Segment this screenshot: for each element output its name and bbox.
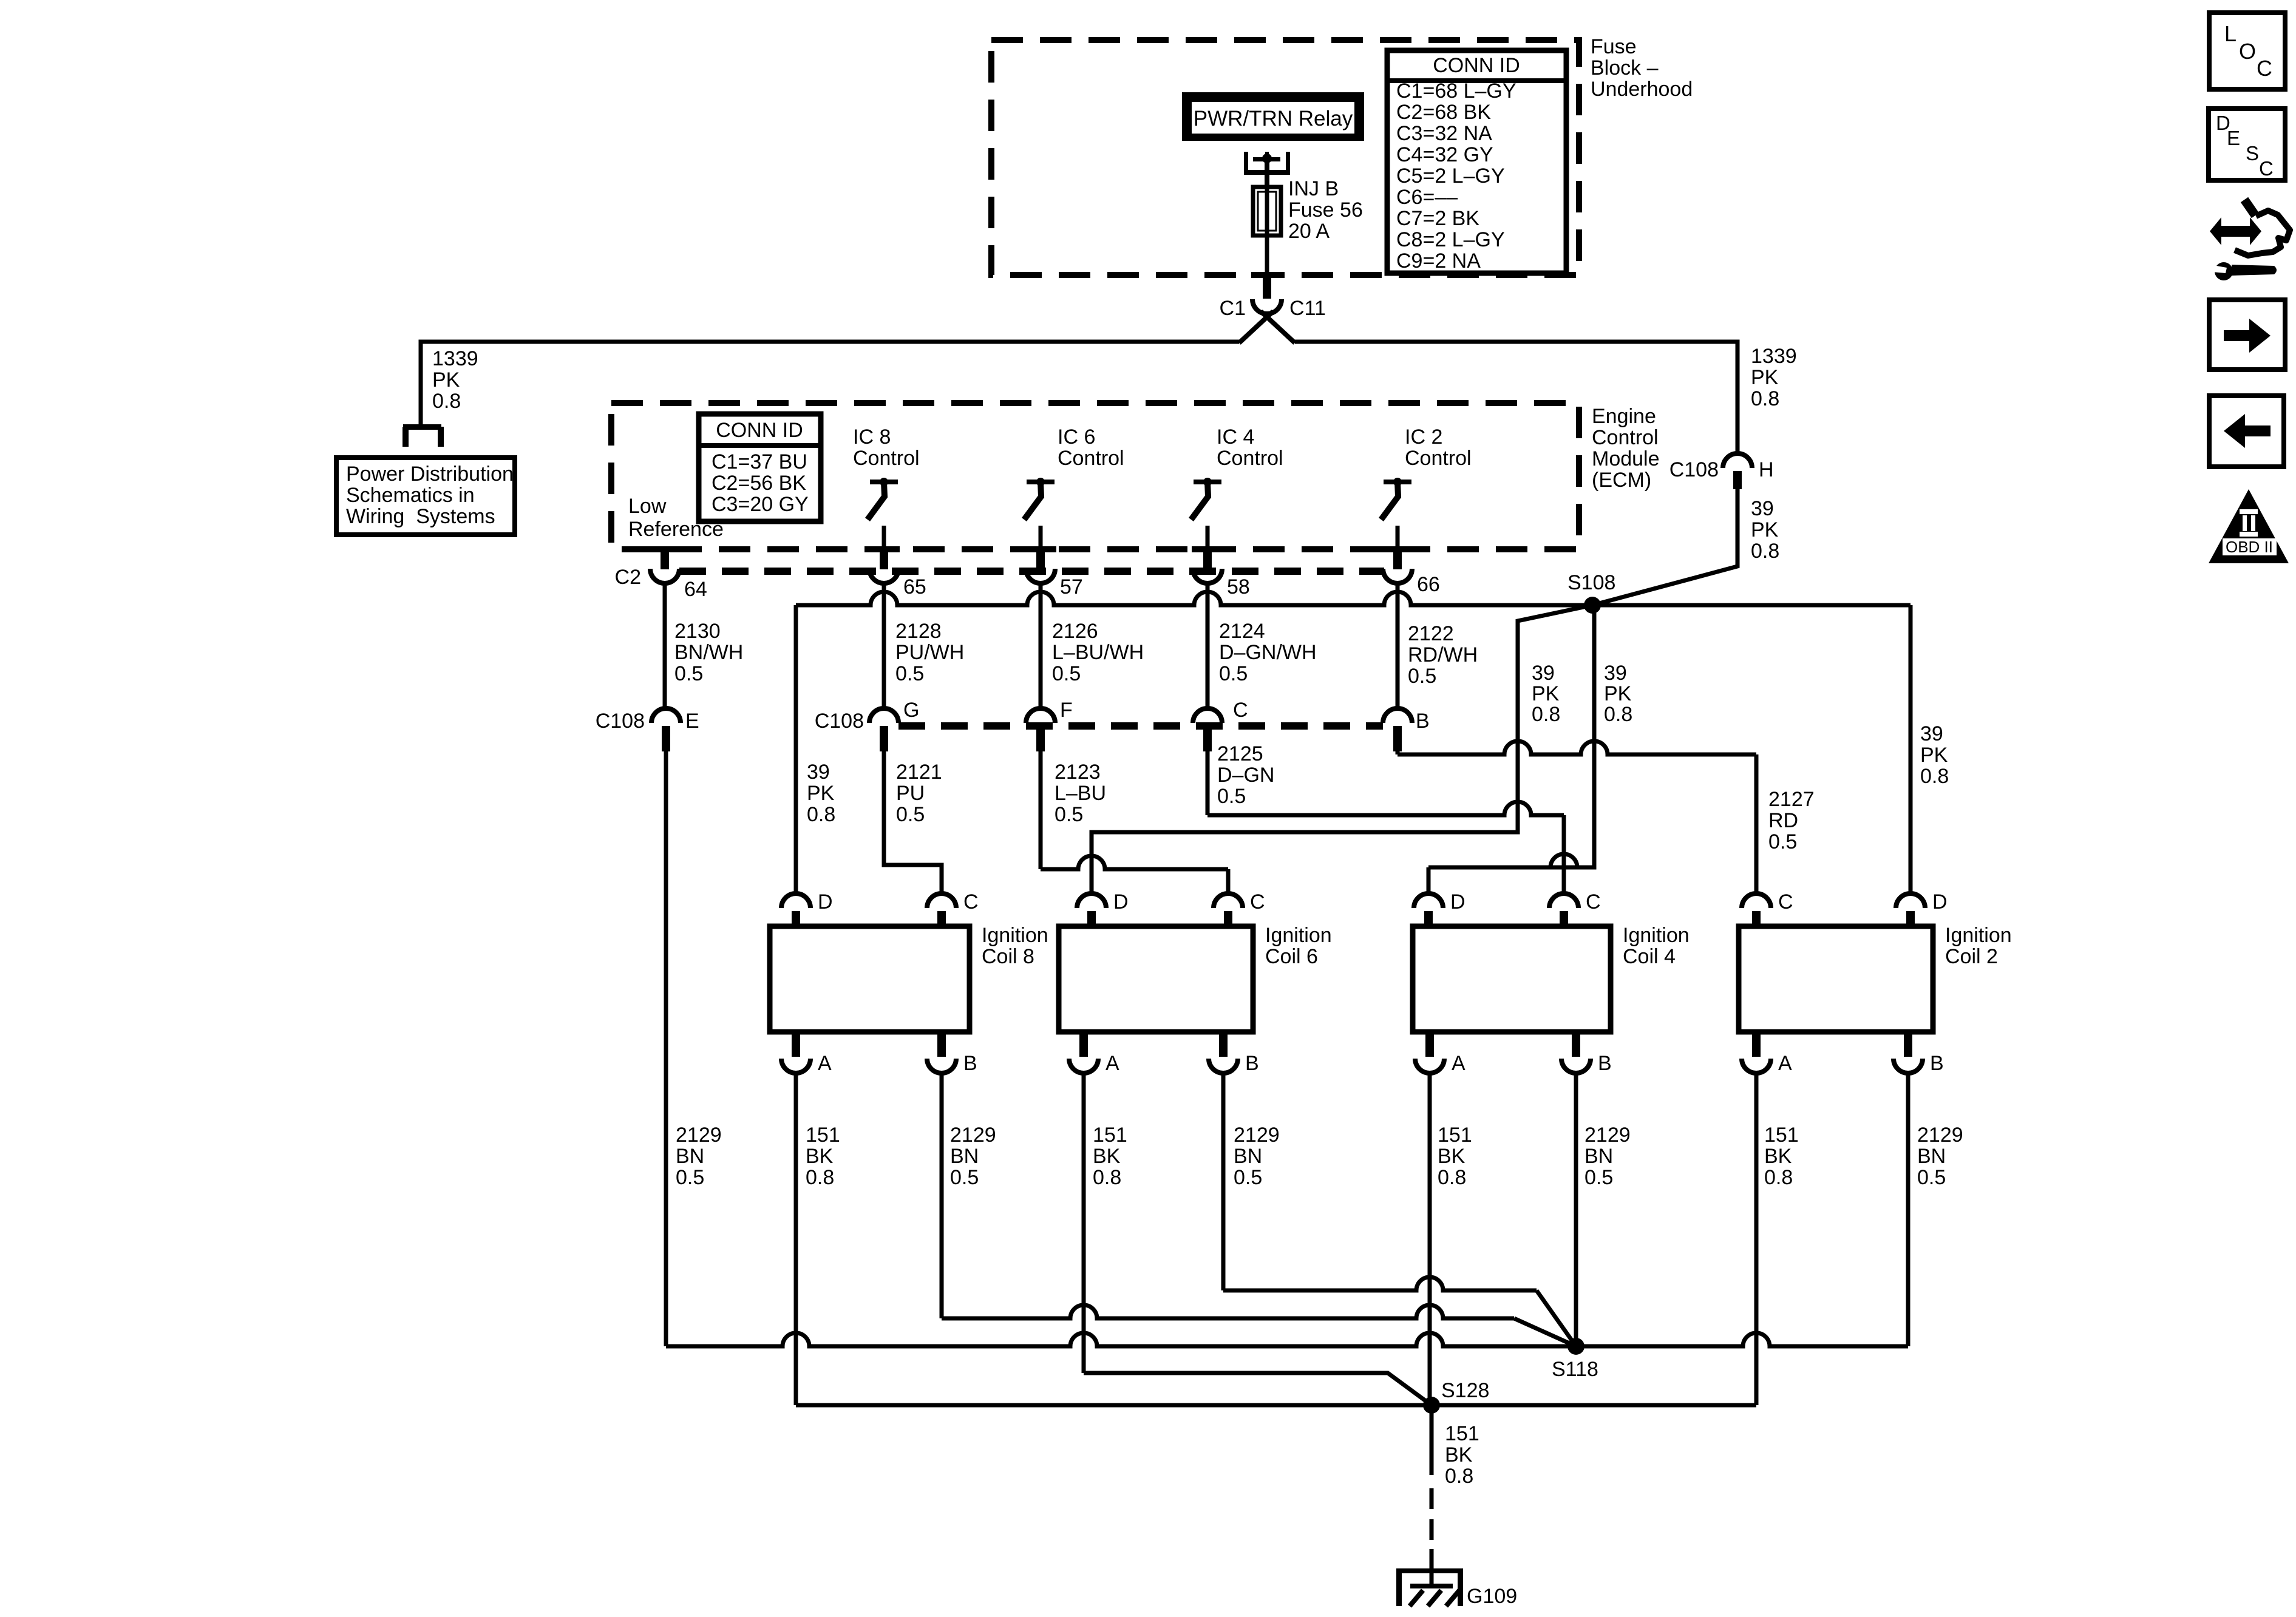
svg-text:Low: Low — [628, 495, 667, 518]
svg-text:Coil 4: Coil 4 — [1623, 945, 1676, 968]
coil 4 pin B — [1572, 1032, 1580, 1057]
svg-text:2127: 2127 — [1768, 788, 1815, 811]
wire 2128 PU/WH pin65 to C108-G — [882, 583, 886, 709]
CONN ID table (fuse block) — [1387, 50, 1566, 273]
svg-text:IC 4: IC 4 — [1217, 425, 1254, 449]
wire 2129 BN coil4-B down to S118 — [1574, 1072, 1578, 1346]
ignition coil 8 box — [770, 926, 970, 1032]
svg-text:65: 65 — [903, 575, 926, 598]
svg-text:1339: 1339 — [432, 347, 478, 370]
wire S108 branch to coil4 D — [1442, 605, 1594, 867]
svg-text:S: S — [2246, 142, 2259, 164]
wire 2121 PU C108-G to coil8 C — [884, 751, 942, 893]
svg-text:D: D — [818, 890, 833, 914]
svg-text:BN: BN — [950, 1145, 979, 1168]
coil 6 pin D — [1077, 893, 1106, 908]
svg-text:F: F — [1060, 699, 1073, 722]
svg-text:2122: 2122 — [1408, 622, 1454, 645]
svg-text:151: 151 — [806, 1124, 840, 1147]
coil 8 pin C — [927, 893, 956, 908]
svg-text:D–GN/WH: D–GN/WH — [1219, 641, 1317, 664]
connector C2 pin 57 — [1025, 546, 1056, 552]
svg-text:58: 58 — [1227, 575, 1250, 598]
svg-text:BK: BK — [1764, 1145, 1792, 1168]
svg-text:2124: 2124 — [1219, 620, 1265, 643]
wire 39 PK to coil2 D — [1909, 605, 1913, 893]
svg-text:2129: 2129 — [950, 1124, 996, 1147]
fuse block underhood dashed box — [991, 40, 1579, 275]
svg-text:2125: 2125 — [1217, 742, 1263, 765]
svg-text:0.5: 0.5 — [1584, 1166, 1613, 1189]
svg-text:C1=37 BU: C1=37 BU — [712, 450, 807, 473]
svg-text:E: E — [2227, 127, 2240, 149]
svg-text:INJ B: INJ B — [1288, 177, 1339, 200]
svg-text:B: B — [963, 1052, 977, 1075]
connector C108 pin G — [869, 708, 898, 723]
coil 2 pin A — [1752, 1032, 1761, 1057]
svg-text:Reference: Reference — [628, 518, 724, 541]
svg-text:0.8: 0.8 — [1604, 703, 1632, 726]
svg-text:39: 39 — [1532, 662, 1555, 685]
svg-text:D–GN: D–GN — [1217, 764, 1274, 787]
svg-text:C7=2 BK: C7=2 BK — [1396, 207, 1479, 230]
svg-text:0.8: 0.8 — [1751, 540, 1779, 563]
svg-text:C4=32 GY: C4=32 GY — [1396, 143, 1493, 166]
coil 4 pin A — [1425, 1032, 1434, 1057]
svg-text:1339: 1339 — [1751, 345, 1797, 368]
splice S118 — [1567, 1338, 1584, 1355]
svg-text:BN: BN — [676, 1145, 704, 1168]
svg-text:L: L — [2224, 21, 2237, 46]
svg-text:Power Distribution: Power Distribution — [346, 463, 514, 486]
svg-text:C108: C108 — [596, 710, 645, 733]
LOC icon box — [2209, 13, 2285, 89]
svg-text:C9=2 NA: C9=2 NA — [1396, 249, 1481, 273]
svg-text:Underhood: Underhood — [1591, 78, 1693, 101]
svg-text:IC 2: IC 2 — [1405, 425, 1442, 449]
wire X crossover below C1 — [1239, 311, 1273, 343]
coil 6 pin A — [1079, 1032, 1088, 1057]
coil 8 pin A — [792, 1032, 800, 1057]
svg-text:E: E — [685, 710, 699, 733]
wire 2129 BN coil6-B down — [1221, 1072, 1226, 1290]
connector C108 pin F — [1026, 708, 1055, 723]
wire 2125 D-GN C108-C to coil4 C — [1206, 751, 1210, 815]
coil 2 pin C — [1742, 893, 1771, 908]
bus 151 BK coil6-A to S128 — [1084, 1373, 1432, 1405]
svg-text:Schematics in: Schematics in — [346, 484, 475, 507]
svg-text:BN: BN — [1917, 1145, 1946, 1168]
connector C1/C11 at fuse block output — [1251, 272, 1283, 278]
svg-text:Fuse 56: Fuse 56 — [1288, 198, 1363, 222]
svg-text:C3=20 GY: C3=20 GY — [712, 493, 809, 516]
svg-text:A: A — [1778, 1052, 1792, 1075]
svg-text:IC 6: IC 6 — [1058, 425, 1095, 449]
svg-text:C108: C108 — [815, 710, 864, 733]
svg-text:2121: 2121 — [896, 761, 942, 784]
svg-text:B: B — [1245, 1052, 1259, 1075]
svg-text:BN: BN — [1234, 1145, 1262, 1168]
svg-text:CONN ID: CONN ID — [716, 419, 803, 442]
svg-text:BN: BN — [1584, 1145, 1613, 1168]
svg-text:BN/WH: BN/WH — [674, 641, 743, 664]
svg-text:IC 8: IC 8 — [853, 425, 891, 449]
svg-text:0.8: 0.8 — [432, 390, 461, 413]
svg-text:0.8: 0.8 — [1445, 1465, 1473, 1488]
svg-text:C1=68 L–GY: C1=68 L–GY — [1396, 80, 1517, 103]
connector C108 pin C — [1193, 708, 1222, 723]
svg-text:66: 66 — [1417, 573, 1440, 596]
svg-text:S118: S118 — [1552, 1358, 1598, 1381]
svg-text:Control: Control — [1058, 447, 1124, 470]
relay contact — [1244, 152, 1248, 175]
svg-text:C: C — [1586, 890, 1601, 914]
coil 8 pin B — [937, 1032, 946, 1057]
coil 2 pin D — [1896, 893, 1925, 908]
ground G109 — [1430, 1549, 1434, 1586]
svg-text:Coil 6: Coil 6 — [1265, 945, 1318, 968]
svg-text:C: C — [2257, 56, 2272, 81]
svg-text:G109: G109 — [1467, 1585, 1517, 1608]
svg-text:0.8: 0.8 — [1764, 1166, 1793, 1189]
wire 2122 RD/WH pin66 to C108-B — [1396, 583, 1400, 709]
svg-text:0.5: 0.5 — [1055, 803, 1083, 826]
svg-text:BK: BK — [1093, 1145, 1121, 1168]
svg-text:0.5: 0.5 — [896, 803, 925, 826]
svg-text:CONN ID: CONN ID — [1433, 54, 1520, 77]
svg-text:PK: PK — [807, 782, 835, 805]
svg-text:Coil 8: Coil 8 — [982, 945, 1034, 968]
ECM dashed box — [611, 403, 1579, 549]
svg-text:S108: S108 — [1567, 571, 1615, 594]
svg-text:0.5: 0.5 — [1917, 1166, 1946, 1189]
svg-text:2123: 2123 — [1055, 761, 1101, 784]
svg-text:2128: 2128 — [895, 620, 942, 643]
svg-text:PK: PK — [1532, 682, 1560, 705]
svg-text:39: 39 — [1920, 722, 1943, 745]
CONN ID table (ECM) — [699, 414, 821, 521]
svg-text:C8=2 L–GY: C8=2 L–GY — [1396, 228, 1505, 251]
off-page connector to power distribution — [403, 424, 441, 430]
svg-text:C11: C11 — [1289, 297, 1326, 320]
svg-text:PK: PK — [1751, 518, 1779, 541]
coil 8 pin D — [781, 893, 810, 908]
svg-text:C2=68 BK: C2=68 BK — [1396, 101, 1491, 124]
svg-text:C: C — [1250, 890, 1265, 914]
svg-text:PK: PK — [1604, 682, 1632, 705]
svg-text:0.5: 0.5 — [1768, 830, 1797, 853]
svg-text:C2: C2 — [615, 566, 641, 589]
svg-text:0.5: 0.5 — [1219, 662, 1248, 685]
svg-text:0.5: 0.5 — [674, 662, 703, 685]
wire branch right 1339 PK — [1295, 342, 1737, 453]
svg-text:0.5: 0.5 — [1234, 1166, 1262, 1189]
DESC icon box — [2209, 109, 2285, 180]
svg-text:39: 39 — [1604, 662, 1627, 685]
wire 2130 BN/WH pin64 to C108-E — [663, 583, 667, 709]
connector C108 pin E — [651, 708, 681, 723]
svg-text:Fuse: Fuse — [1591, 35, 1637, 58]
wire 151 BK coil6-A down — [1082, 1072, 1086, 1373]
svg-text:2129: 2129 — [1917, 1124, 1963, 1147]
bus 2129 BN main S118 line — [666, 1333, 1908, 1346]
coil 6 pin B — [1219, 1032, 1228, 1057]
wire 151 BK coil4-A down to S128 — [1428, 1072, 1432, 1405]
svg-text:RD: RD — [1768, 809, 1798, 832]
svg-text:B: B — [1416, 710, 1430, 733]
svg-text:0.8: 0.8 — [1751, 387, 1779, 410]
svg-text:20 A: 20 A — [1288, 220, 1330, 243]
connector C2 pin 58 — [1192, 546, 1223, 552]
svg-text:2130: 2130 — [674, 620, 721, 643]
svg-text:OBD II: OBD II — [2226, 538, 2273, 556]
wire 2126 L-BU/WH pin57 to C108-F — [1039, 583, 1043, 709]
coil 4 pin C — [1549, 893, 1578, 908]
svg-text:151: 151 — [1438, 1124, 1472, 1147]
svg-text:Ignition: Ignition — [1265, 924, 1332, 947]
svg-text:0.5: 0.5 — [1408, 665, 1436, 688]
wire branch left 1339 PK — [421, 342, 1239, 425]
svg-text:D: D — [1450, 890, 1466, 914]
svg-text:Block –: Block – — [1591, 56, 1659, 80]
svg-text:0.5: 0.5 — [1052, 662, 1081, 685]
svg-text:2129: 2129 — [676, 1124, 722, 1147]
coil 6 pin C — [1214, 893, 1243, 908]
svg-text:0.8: 0.8 — [1920, 765, 1949, 788]
svg-text:Ignition: Ignition — [1945, 924, 2012, 947]
svg-text:L–BU/WH: L–BU/WH — [1052, 641, 1144, 664]
svg-text:S128: S128 — [1441, 1379, 1489, 1402]
svg-text:151: 151 — [1764, 1124, 1799, 1147]
wire 2129 BN from C108-E down to S118 bus — [664, 751, 668, 1346]
svg-text:Control: Control — [1217, 447, 1283, 470]
svg-text:Ignition: Ignition — [982, 924, 1048, 947]
svg-text:D: D — [1113, 890, 1129, 914]
svg-text:151: 151 — [1445, 1422, 1479, 1445]
svg-text:Engine: Engine — [1592, 405, 1656, 428]
svg-text:Ignition: Ignition — [1623, 924, 1690, 947]
svg-text:57: 57 — [1060, 575, 1083, 598]
svg-text:0.5: 0.5 — [895, 662, 924, 685]
svg-text:Module: Module — [1592, 447, 1660, 470]
connector C2 pin 65 — [868, 546, 900, 552]
svg-text:H: H — [1759, 458, 1774, 481]
coil 2 pin B — [1904, 1032, 1912, 1057]
splice S128 — [1423, 1397, 1440, 1414]
dashed connector line C2 row — [679, 568, 1384, 575]
ignition coil 2 box — [1739, 926, 1933, 1032]
svg-text:B: B — [1598, 1052, 1612, 1075]
svg-text:151: 151 — [1093, 1124, 1127, 1147]
wire relay to fuse — [1265, 161, 1269, 187]
svg-text:BK: BK — [1445, 1443, 1473, 1466]
connector C2 pin 64 — [649, 546, 681, 552]
wire 151 BK S128 to ground — [1430, 1405, 1434, 1475]
svg-text:2126: 2126 — [1052, 620, 1098, 643]
coil 4 pin D — [1414, 893, 1443, 908]
svg-text:64: 64 — [684, 578, 707, 601]
svg-text:2129: 2129 — [1584, 1124, 1631, 1147]
svg-text:0.5: 0.5 — [1217, 785, 1246, 808]
svg-text:C: C — [1778, 890, 1793, 914]
svg-text:0.5: 0.5 — [950, 1166, 979, 1189]
svg-text:PK: PK — [432, 368, 460, 392]
svg-text:0.5: 0.5 — [676, 1166, 704, 1189]
svg-text:C5=2 L–GY: C5=2 L–GY — [1396, 164, 1505, 188]
svg-text:A: A — [1452, 1052, 1466, 1075]
wire 39 PK to coil8 D — [794, 605, 798, 893]
wire 151 BK coil8-A down — [794, 1072, 798, 1405]
svg-text:C: C — [2259, 157, 2274, 180]
wire 2129 BN coil2-B down to S118 bus — [1906, 1072, 1911, 1346]
right arrow icon box — [2209, 300, 2285, 370]
svg-text:Coil 2: Coil 2 — [1945, 945, 1998, 968]
svg-text:0.8: 0.8 — [807, 803, 835, 826]
wire 2123 L-BU C108-F to coil6 C — [1039, 751, 1043, 869]
svg-text:PK: PK — [1920, 744, 1948, 767]
svg-text:39: 39 — [1751, 497, 1774, 520]
wire 2129 BN coil8-B down — [940, 1072, 944, 1318]
svg-text:PU: PU — [896, 782, 925, 805]
relay K PWR/TRN Relay — [1182, 92, 1364, 141]
svg-text:0.8: 0.8 — [1093, 1166, 1121, 1189]
ignition coil 6 box — [1059, 926, 1253, 1032]
svg-text:A: A — [1106, 1052, 1119, 1075]
svg-text:G: G — [903, 699, 919, 722]
svg-text:C2=56 BK: C2=56 BK — [712, 472, 806, 495]
svg-text:PK: PK — [1751, 366, 1779, 389]
svg-text:C3=32 NA: C3=32 NA — [1396, 122, 1492, 145]
ignition coil 4 box — [1413, 926, 1611, 1032]
wire H to S108 — [1592, 489, 1737, 605]
svg-text:(ECM): (ECM) — [1592, 469, 1651, 492]
wire S108 branch to coil6 D — [1092, 605, 1592, 893]
splice S108 — [1584, 597, 1601, 614]
wire 39 PK main bus from S108 — [796, 592, 1911, 605]
connector C108 pin H — [1723, 453, 1752, 468]
svg-text:2129: 2129 — [1234, 1124, 1280, 1147]
OBD II triangle icon — [2209, 489, 2289, 563]
bus 2129 BN coil6-B to S118 — [1223, 1277, 1537, 1290]
svg-text:39: 39 — [807, 761, 830, 784]
svg-text:0.8: 0.8 — [1532, 703, 1560, 726]
bus 2129 BN coil8-B to S118 — [942, 1305, 1514, 1318]
bus 151 BK main S128 line — [796, 1403, 1756, 1408]
connector C108 pin B — [1383, 708, 1412, 723]
svg-text:RD/WH: RD/WH — [1408, 643, 1478, 666]
wire 2127 RD C108-B to coil2 C — [1396, 751, 1400, 754]
svg-text:C: C — [963, 890, 979, 914]
hand with arrows and wrench icon — [2221, 226, 2250, 237]
power distribution box — [336, 458, 515, 535]
svg-text:0.8: 0.8 — [806, 1166, 834, 1189]
svg-text:Wiring Systems: Wiring Systems — [346, 505, 495, 528]
svg-text:Control: Control — [853, 447, 920, 470]
left arrow icon box — [2209, 396, 2284, 467]
svg-text:C108: C108 — [1669, 458, 1719, 481]
wire 2124 D-GN/WH pin58 to C108-C — [1206, 583, 1210, 709]
fuse F INJ B Fuse 56 20 A — [1253, 187, 1281, 236]
svg-text:A: A — [818, 1052, 832, 1075]
svg-text:0.8: 0.8 — [1438, 1166, 1466, 1189]
svg-text:PWR/TRN Relay: PWR/TRN Relay — [1194, 107, 1353, 131]
svg-text:C1: C1 — [1220, 297, 1246, 320]
svg-text:D: D — [1932, 890, 1948, 914]
connector C2 pin 66 — [1382, 546, 1413, 552]
svg-text:BK: BK — [806, 1145, 834, 1168]
svg-text:L–BU: L–BU — [1055, 782, 1106, 805]
svg-text:BK: BK — [1438, 1145, 1466, 1168]
svg-text:O: O — [2239, 39, 2256, 64]
svg-text:Control: Control — [1405, 447, 1472, 470]
wire 151 BK coil2-A down to S128 bus — [1754, 1072, 1759, 1405]
dashed connector line C108 row — [898, 722, 1383, 730]
svg-text:C: C — [1233, 699, 1248, 722]
svg-text:Control: Control — [1592, 426, 1659, 449]
svg-text:C6=––: C6=–– — [1396, 186, 1458, 209]
svg-text:PU/WH: PU/WH — [895, 641, 964, 664]
svg-text:B: B — [1930, 1052, 1944, 1075]
